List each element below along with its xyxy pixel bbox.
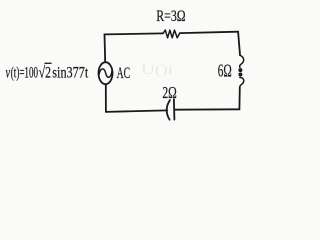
radical vinculum over 2	[45, 63, 52, 64]
wire left vertical upper	[104, 34, 107, 62]
resistor R1 R=3ohm zigzag	[163, 30, 180, 38]
svg-text:√2: √2	[39, 64, 51, 81]
wire right vertical upper	[238, 32, 240, 55]
svg-text:sin377t: sin377t	[52, 64, 88, 81]
AC source V1 circle	[99, 62, 113, 84]
inductor loop dot upper	[238, 68, 242, 72]
svg-text:2Ω: 2Ω	[162, 83, 176, 102]
svg-text:R=3Ω: R=3Ω	[156, 8, 185, 25]
wire right vertical lower	[238, 87, 240, 109]
wire bottom-left segment	[106, 110, 167, 112]
AC source sine wave	[99, 69, 112, 77]
capacitor C1 left curved plate	[167, 100, 170, 120]
wire left vertical lower	[105, 84, 107, 112]
inductor L1 6ohm coil	[240, 55, 244, 67]
capacitor C1 right plate	[173, 99, 176, 119]
wire top-left segment	[104, 33, 163, 34]
svg-text:U()i: U()i	[141, 63, 173, 78]
svg-text:AC: AC	[117, 65, 131, 82]
wire bottom-right segment	[175, 108, 240, 110]
inductor loop dot lower	[238, 73, 242, 77]
svg-text:6Ω: 6Ω	[218, 61, 232, 81]
wire top-right segment	[180, 32, 238, 33]
svg-text:(t)=100: (t)=100	[11, 64, 38, 81]
